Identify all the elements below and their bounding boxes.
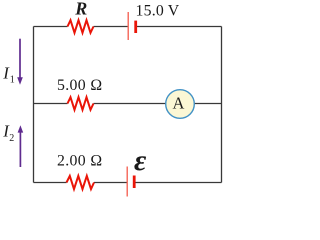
current arrow I1	[17, 39, 23, 85]
wire: top left segment	[34, 26, 68, 28]
battery EMF short plate	[133, 176, 136, 189]
resistor R	[68, 20, 94, 33]
wire: right vertical	[221, 27, 223, 183]
battery EMF long plate	[126, 167, 128, 197]
wire: middle left segment	[34, 103, 68, 105]
resistor 2.00 ohm	[67, 176, 95, 189]
wire: bottom left segment	[34, 182, 67, 184]
svg-text:1: 1	[10, 75, 15, 86]
svg-text:15.0 V: 15.0 V	[136, 2, 180, 19]
svg-text:5.00 Ω: 5.00 Ω	[57, 77, 102, 94]
wire: left vertical	[33, 27, 35, 183]
wire: bottom segment between resistor and battery	[94, 182, 127, 184]
svg-text:A: A	[173, 94, 185, 113]
battery V1 long plate	[127, 12, 129, 40]
wire: top segment between R and battery	[94, 26, 128, 28]
svg-text:R: R	[74, 0, 87, 18]
ammeter A	[166, 90, 195, 119]
current arrow I2	[18, 125, 24, 167]
wire: bottom segment right of battery	[135, 182, 222, 184]
svg-text:2.00 Ω: 2.00 Ω	[57, 152, 102, 169]
wire: top segment right of battery	[136, 26, 222, 28]
battery V1 short plate	[134, 21, 137, 33]
resistor 5.00 ohm	[68, 97, 94, 110]
svg-text:ε: ε	[134, 144, 147, 177]
wire: middle segment from resistor to right wire	[94, 103, 222, 105]
svg-text:2: 2	[9, 133, 14, 144]
